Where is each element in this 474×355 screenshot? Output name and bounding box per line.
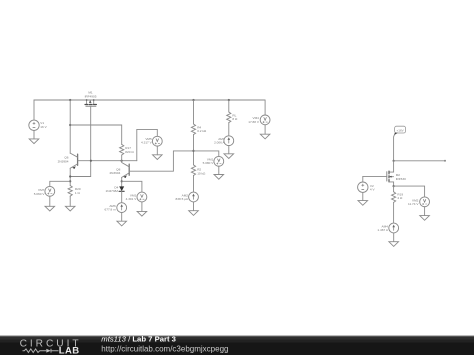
node rail-Q6 junction xyxy=(69,99,71,101)
node branch at y125 xyxy=(69,124,71,126)
wire V1 to ground xyxy=(33,131,35,139)
ground below R20 xyxy=(65,206,75,211)
wire Q8 emitter down xyxy=(121,177,123,186)
mosfet M2 xyxy=(387,161,406,186)
svg-text:http://circuitlab.com/c3ebgmjx: http://circuitlab.com/c3ebgmjxcpegg xyxy=(101,345,228,354)
svg-text:1 Ω: 1 Ω xyxy=(75,191,81,195)
wire M2 gate xyxy=(363,175,387,177)
wire Q6 base xyxy=(78,160,137,162)
wire Q8 base L xyxy=(129,151,193,171)
svg-text:+16V: +16V xyxy=(397,129,404,133)
ground below VM3 xyxy=(137,211,147,216)
ground below VM5 xyxy=(153,155,163,160)
node emitter-VM7 junction xyxy=(69,180,71,182)
ground below AM4 xyxy=(389,242,399,247)
wire source to VM2 xyxy=(394,186,425,196)
wire R20 to ground xyxy=(69,196,71,206)
node emitter-VM3 junction xyxy=(121,180,123,182)
voltmeter VM3 xyxy=(137,192,147,202)
wire VM2 to ground xyxy=(424,207,426,216)
circuitlab logo xyxy=(20,339,82,355)
wire AM4 to ground xyxy=(393,233,395,242)
wire AM6 to ground xyxy=(121,213,123,222)
wire VM3 to ground xyxy=(141,202,143,211)
ground below AM2 xyxy=(189,211,199,216)
node right rail junction xyxy=(393,160,395,162)
svg-text:8 Ω: 8 Ω xyxy=(232,117,238,121)
ground below V2 xyxy=(358,201,368,206)
diode D4 zener xyxy=(105,185,124,193)
svg-text:IRF4905: IRF4905 xyxy=(85,94,97,98)
voltmeter VM7 xyxy=(45,186,55,196)
svg-text:0.2 kΩ: 0.2 kΩ xyxy=(197,129,207,133)
svg-text:5.080 V: 5.080 V xyxy=(203,161,215,165)
svg-text:17.88 V: 17.88 V xyxy=(248,120,260,124)
svg-text:IRF530: IRF530 xyxy=(396,177,406,181)
svg-text:2N3904: 2N3904 xyxy=(109,171,120,175)
svg-text:LAB: LAB xyxy=(59,346,80,355)
svg-text:5.060 V: 5.060 V xyxy=(34,192,46,196)
wire V1 to rail xyxy=(33,100,35,120)
wire node to VM1 xyxy=(194,151,219,157)
wire branch to R17 xyxy=(70,125,122,144)
wire VM4 to ground xyxy=(264,125,266,134)
node R17 bottom xyxy=(121,160,123,162)
ground below V1 xyxy=(29,139,39,144)
svg-text:2N3904: 2N3904 xyxy=(58,159,69,163)
mosfet M1 xyxy=(85,91,97,107)
svg-text:1N4738A: 1N4738A xyxy=(105,189,119,193)
wire rail end to VM4 xyxy=(264,100,266,115)
node flag +16V xyxy=(394,126,406,135)
svg-text:4.317 V: 4.317 V xyxy=(141,141,153,145)
resistor RL xyxy=(227,112,231,123)
wire VM7 to ground xyxy=(49,196,51,206)
ground below AM6 xyxy=(117,221,127,226)
node emitter-gate junction xyxy=(69,175,71,177)
svg-text:2.006 A: 2.006 A xyxy=(214,141,225,145)
wire source to R19 xyxy=(393,186,395,192)
voltmeter VM1 xyxy=(214,156,224,166)
svg-text:677.8 m: 677.8 m xyxy=(105,208,117,212)
ammeter AM6 xyxy=(117,203,127,213)
ground below VM1 xyxy=(214,175,224,180)
footer bar xyxy=(0,336,474,355)
wire rail to RL xyxy=(228,100,230,112)
node M1 source on rail xyxy=(93,99,95,101)
voltage source V1 xyxy=(29,120,39,130)
svg-text:mts113 / Lab 7 Part 3: mts113 / Lab 7 Part 3 xyxy=(101,334,176,343)
node rail-R4 junction xyxy=(192,99,194,101)
wire top rail xyxy=(34,99,265,101)
node M1 drain on rail xyxy=(86,99,88,101)
svg-text:820 Ω: 820 Ω xyxy=(125,150,134,154)
wire base node to VM5 xyxy=(137,129,158,160)
voltage source V2 xyxy=(358,182,368,192)
transistor Q6 xyxy=(58,153,78,169)
wire VM5 to ground xyxy=(156,146,158,155)
svg-text:4 V: 4 V xyxy=(370,188,376,192)
wire VM1 to ground xyxy=(218,166,220,174)
wire flag to rail xyxy=(393,135,396,161)
transistor Q8 xyxy=(109,161,129,178)
wire rail to R4 xyxy=(193,100,195,124)
wire AM1 to ground xyxy=(228,146,230,154)
wire R19 to AM4 xyxy=(393,202,395,223)
resistor R20 xyxy=(68,186,72,197)
ammeter AM1 xyxy=(224,136,234,146)
svg-text:10 kΩ: 10 kΩ xyxy=(197,171,206,175)
resistor R19 xyxy=(392,192,396,203)
svg-text:16 V: 16 V xyxy=(40,125,47,129)
svg-text:4.301 V: 4.301 V xyxy=(126,197,138,201)
svg-text:1.467 A: 1.467 A xyxy=(377,228,388,232)
node gate-base crossing xyxy=(90,160,92,162)
wire R4 to node xyxy=(193,135,195,165)
ammeter AM2 xyxy=(189,192,199,202)
ammeter AM4 xyxy=(389,223,399,233)
wire gate to V2 xyxy=(362,176,364,182)
resistor R4 xyxy=(191,124,195,135)
resistor R2 xyxy=(191,165,195,176)
svg-text:4 Ω: 4 Ω xyxy=(397,196,403,200)
wire R2 to AM2 xyxy=(193,176,195,193)
voltmeter VM2 xyxy=(420,197,430,207)
wire AM2 to ground xyxy=(193,202,195,211)
svg-text:11.74 V: 11.74 V xyxy=(408,202,419,206)
node rail right endpoint xyxy=(444,160,446,162)
wire RL to AM1 xyxy=(228,123,230,136)
voltmeter VM5 xyxy=(152,136,162,146)
node R4-R2-base-VM1 xyxy=(192,150,194,152)
wire R17 to base node xyxy=(121,155,123,161)
wire V2 to ground xyxy=(362,193,364,201)
node rail-RL junction xyxy=(228,99,230,101)
ground below AM1 xyxy=(224,154,234,159)
wire Q6 emitter down xyxy=(69,168,71,185)
wire M1 gate down xyxy=(70,106,91,176)
wire D4 to AM6 xyxy=(121,191,123,202)
node M2 source junction xyxy=(393,185,395,187)
wire to VM3 xyxy=(122,181,142,192)
ground below VM2 xyxy=(420,216,430,221)
wire to VM7 xyxy=(50,181,70,186)
ground below VM4 xyxy=(260,134,270,139)
resistor R17 xyxy=(120,144,124,155)
wire right rail xyxy=(394,160,446,162)
voltmeter VM4 xyxy=(260,115,270,125)
wire rail down to Q6 collector xyxy=(69,100,71,153)
ground below VM7 xyxy=(45,206,55,211)
svg-text:838.5 µA: 838.5 µA xyxy=(176,197,189,201)
